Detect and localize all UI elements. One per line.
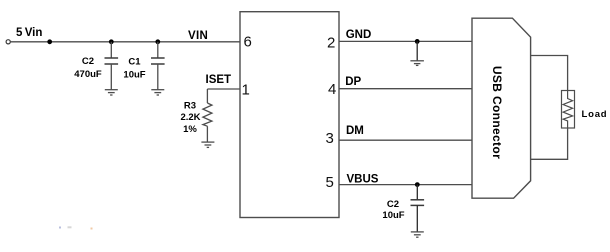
svg-text:2: 2 xyxy=(327,35,335,52)
wire GND xyxy=(339,40,472,42)
svg-text:USB Connector: USB Connector xyxy=(490,66,504,159)
junction dot near 5Vin xyxy=(47,39,52,44)
junction dot VBUS xyxy=(415,182,420,187)
ground for C1 xyxy=(151,90,164,95)
svg-text:VBUS: VBUS xyxy=(347,173,379,185)
wire load bottom xyxy=(531,128,568,159)
ground for R3 xyxy=(201,142,214,147)
svg-text:DM: DM xyxy=(346,125,364,137)
wire DP xyxy=(339,88,472,90)
svg-text:ISET: ISET xyxy=(206,74,232,86)
svg-text:C1: C1 xyxy=(128,56,141,67)
svg-text:470uF: 470uF xyxy=(74,69,102,80)
svg-text:1: 1 xyxy=(242,81,250,98)
svg-text:1%: 1% xyxy=(183,124,197,135)
svg-text:VIN: VIN xyxy=(188,30,208,42)
junction dot C1 xyxy=(155,39,160,44)
ground for VBUS cap xyxy=(411,232,424,237)
wire ISET xyxy=(207,88,240,90)
svg-text:5 Vin: 5 Vin xyxy=(16,27,42,39)
wire load top xyxy=(531,56,568,91)
svg-text:Load: Load xyxy=(582,109,608,120)
resistor R3 2.2K xyxy=(203,89,212,142)
svg-text:10uF: 10uF xyxy=(382,210,404,221)
svg-text:C2: C2 xyxy=(387,199,399,210)
svg-text:6: 6 xyxy=(244,34,252,51)
wire DM xyxy=(339,139,472,141)
faint artifacts bottom left xyxy=(59,226,93,229)
ground at GND pin xyxy=(410,61,424,66)
load resistor box xyxy=(562,91,575,129)
capacitor C2 10uF (VBUS) xyxy=(411,185,425,232)
IC U1 body xyxy=(240,12,339,218)
junction dot GND xyxy=(415,39,420,44)
load resistor zigzag xyxy=(563,91,573,129)
svg-text:10uF: 10uF xyxy=(123,69,145,80)
capacitor C2 470uF xyxy=(105,42,119,90)
capacitor C1 10uF xyxy=(151,42,165,90)
ground for C2 xyxy=(105,90,118,95)
svg-text:5: 5 xyxy=(325,174,333,191)
svg-text:3: 3 xyxy=(325,130,333,147)
svg-text:C2: C2 xyxy=(82,56,94,67)
wire VIN main xyxy=(10,41,240,43)
svg-text:2.2K: 2.2K xyxy=(180,112,200,123)
svg-text:R3: R3 xyxy=(184,101,196,112)
wire GND drop xyxy=(416,41,418,60)
junction dot C2 xyxy=(109,39,114,44)
svg-text:DP: DP xyxy=(345,76,361,88)
USB connector J1 xyxy=(472,18,531,198)
terminal 5Vin xyxy=(6,40,10,44)
svg-text:4: 4 xyxy=(328,81,336,98)
svg-text:GND: GND xyxy=(346,29,372,41)
wire VBUS xyxy=(339,184,472,186)
